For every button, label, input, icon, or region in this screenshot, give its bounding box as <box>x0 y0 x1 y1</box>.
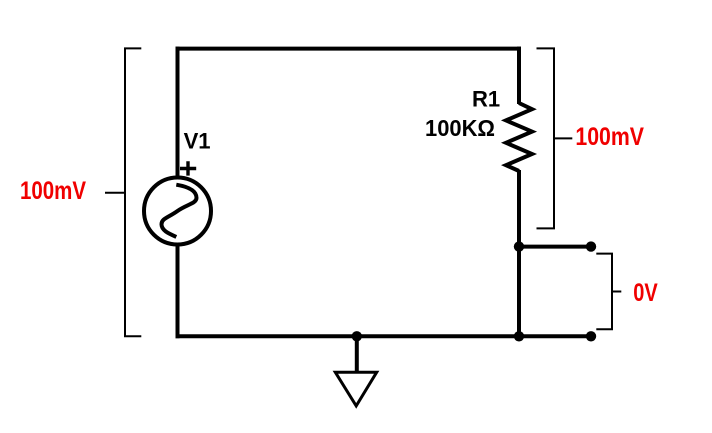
plus sign of V1 <box>180 161 196 175</box>
wire: resistor bottom down to bottom-right corner <box>517 170 521 338</box>
svg-text:0V: 0V <box>633 279 658 307</box>
wire: top-right corner down to resistor top <box>517 47 521 104</box>
AC source V1 <box>144 178 211 245</box>
junction dot: right wire at bottom <box>514 331 524 341</box>
wire: bottom horizontal <box>176 334 592 338</box>
measurement bracket: 0V <box>596 254 621 330</box>
svg-text:100mV: 100mV <box>575 123 644 151</box>
wire: V1 top terminal to top-left corner <box>176 47 180 177</box>
wire: V1 bottom terminal to bottom-left corner <box>176 246 180 338</box>
sine symbol inside V1 <box>162 185 197 237</box>
ground symbol <box>335 372 376 406</box>
wire: ground stub <box>355 336 359 371</box>
svg-text:100KΩ: 100KΩ <box>425 115 495 141</box>
measurement bracket: left (across V1) <box>105 48 141 336</box>
junction dot: ground tap on bottom wire <box>352 331 362 341</box>
svg-text:R1: R1 <box>472 87 500 112</box>
svg-text:V1: V1 <box>184 129 211 154</box>
probe dot: end of bottom wire <box>586 331 596 341</box>
wire: top horizontal <box>176 47 522 51</box>
probe dot: end of upper stub <box>586 241 596 251</box>
wire: stub from right wire to probe dot <box>519 245 591 249</box>
measurement bracket: right (across R1) <box>537 48 573 228</box>
junction dot: right wire at stub <box>514 241 524 251</box>
resistor R1 <box>506 103 532 171</box>
svg-text:100mV: 100mV <box>20 177 86 205</box>
